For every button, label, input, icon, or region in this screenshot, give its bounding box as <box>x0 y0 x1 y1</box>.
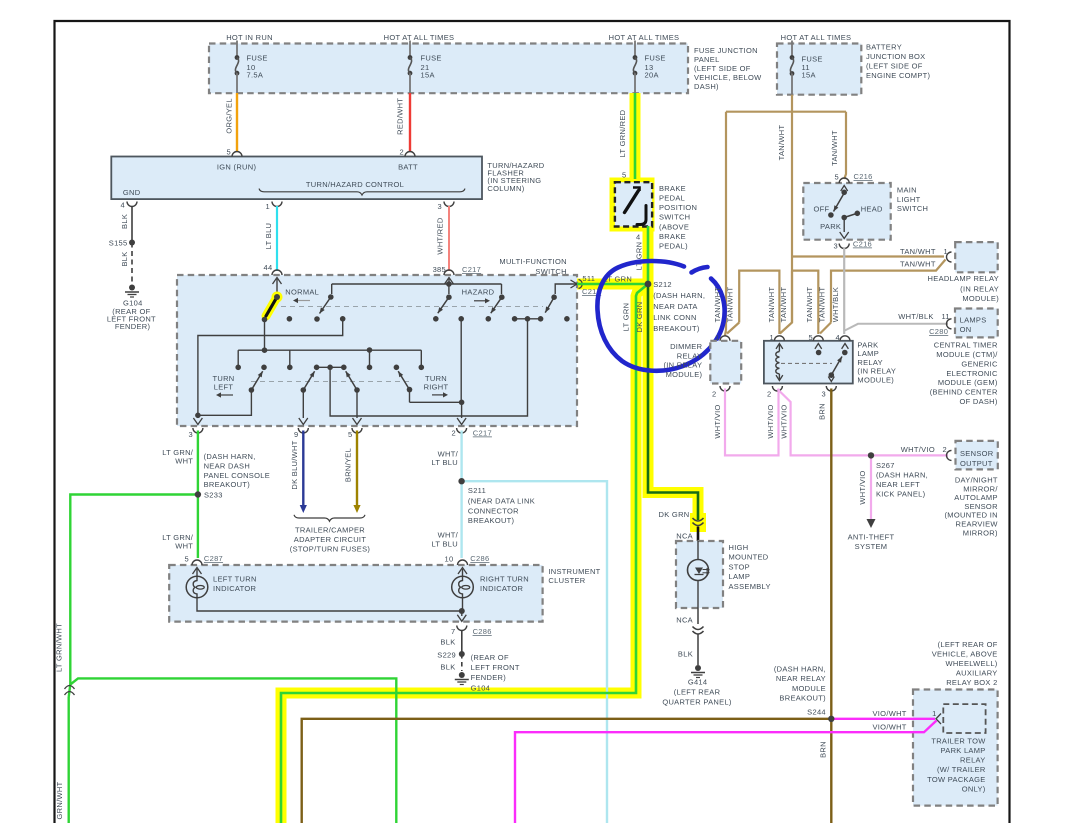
svg-text:S244: S244 <box>807 708 826 717</box>
svg-text:(IN RELAY: (IN RELAY <box>663 361 702 370</box>
svg-text:SWITCH: SWITCH <box>897 204 928 213</box>
node pin385 junction <box>446 281 452 287</box>
svg-text:FENDER): FENDER) <box>115 322 151 331</box>
bus wire y350 <box>238 349 421 351</box>
wire WHT/BLK MLS to park relay <box>843 248 845 334</box>
pin 5 park relay <box>813 336 823 341</box>
svg-text:TAN/WHT: TAN/WHT <box>900 260 936 269</box>
svg-text:G414: G414 <box>688 678 708 687</box>
svg-text:FUSE: FUSE <box>421 54 442 63</box>
svg-text:5: 5 <box>835 173 839 182</box>
highlight LT GRN/RED fuse13 wire <box>630 93 641 179</box>
svg-text:PARK LAMP: PARK LAMP <box>941 746 986 755</box>
fuse F13 20A <box>634 41 636 58</box>
svg-text:C286: C286 <box>470 554 489 563</box>
svg-text:3: 3 <box>822 390 826 399</box>
svg-text:44: 44 <box>264 263 273 272</box>
svg-text:MOUNTED: MOUNTED <box>729 553 769 562</box>
node S211 <box>458 478 464 484</box>
svg-text:PARK: PARK <box>857 341 878 350</box>
svg-text:MODULE (GEM): MODULE (GEM) <box>938 378 998 387</box>
svg-text:2: 2 <box>452 429 456 438</box>
svg-text:VEHICLE, ABOVE: VEHICLE, ABOVE <box>932 650 998 659</box>
brace turn/hazard control <box>259 189 465 195</box>
svg-text:(ABOVE: (ABOVE <box>659 222 689 231</box>
svg-text:TAN/WHT: TAN/WHT <box>779 287 788 323</box>
switch H3 and 511 exit <box>555 284 577 294</box>
svg-text:1: 1 <box>932 709 936 718</box>
high mounted stop lamp box <box>676 541 723 608</box>
svg-text:SWITCH: SWITCH <box>659 213 690 222</box>
svg-text:MODULE (CTM)/: MODULE (CTM)/ <box>936 350 998 359</box>
svg-text:INSTRUMENT: INSTRUMENT <box>548 567 600 576</box>
wire TAN/WHT to dimmer relay <box>725 112 727 330</box>
relay contact pin5 <box>815 344 822 349</box>
svg-text:2: 2 <box>400 148 404 157</box>
pin 5 flasher <box>232 152 242 157</box>
svg-text:AUXILIARY: AUXILIARY <box>956 669 998 678</box>
wire TAN/WHT headlamp feed B <box>831 260 946 323</box>
wire TAN/WHT to main light switch <box>844 112 846 179</box>
wire WHT/VIO to anti-theft <box>870 455 872 519</box>
wire WHT/LT BLU branch right <box>462 481 607 823</box>
svg-text:WHT/BLK: WHT/BLK <box>898 312 933 321</box>
pin 11 lamps on <box>947 319 952 329</box>
wire TAN/WHT segB <box>792 271 818 334</box>
pin 1 headlamp relay <box>947 252 952 262</box>
svg-text:10: 10 <box>445 555 454 564</box>
svg-text:C217: C217 <box>462 265 481 274</box>
svg-text:BLK: BLK <box>678 649 693 658</box>
svg-text:COLUMN): COLUMN) <box>487 184 524 193</box>
svg-text:HEAD: HEAD <box>861 205 883 214</box>
svg-text:PARK: PARK <box>820 222 841 231</box>
wire TAN/WHT from fuse 11 <box>791 95 793 323</box>
svg-text:15A: 15A <box>421 71 435 80</box>
connector NCA inline <box>693 518 704 521</box>
svg-text:RELAY: RELAY <box>677 351 703 360</box>
svg-text:RELAY BOX 2: RELAY BOX 2 <box>946 678 997 687</box>
svg-text:BREAKOUT): BREAKOUT) <box>779 694 826 703</box>
annotation blue dash <box>692 267 708 273</box>
main light switch box <box>803 183 890 240</box>
svg-text:PEDAL: PEDAL <box>659 194 685 203</box>
pin 2 park relay <box>772 386 782 391</box>
svg-text:PANEL CONSOLE: PANEL CONSOLE <box>204 471 270 480</box>
svg-text:NEAR RELAY: NEAR RELAY <box>776 674 826 683</box>
svg-text:BRN/YEL: BRN/YEL <box>344 448 353 482</box>
trailer tow relay inner box <box>943 704 985 733</box>
svg-text:KICK PANEL): KICK PANEL) <box>876 490 926 499</box>
pin 1 flasher <box>272 202 282 207</box>
svg-text:WHT/VIO: WHT/VIO <box>779 404 788 438</box>
svg-text:NCA: NCA <box>676 615 693 624</box>
highlight LT GRN branch to bottom <box>281 284 648 823</box>
pin 3 MLS <box>839 244 849 249</box>
svg-text:BRN: BRN <box>818 403 827 420</box>
MLS internal switch <box>841 186 848 192</box>
svg-text:PANEL: PANEL <box>694 55 720 64</box>
svg-text:5: 5 <box>227 148 231 157</box>
wire LT GRN from 511 <box>577 283 648 286</box>
node S267 <box>868 452 874 458</box>
svg-text:WHT/VIO: WHT/VIO <box>858 470 867 504</box>
node S244 <box>828 716 834 722</box>
svg-text:(STOP/TURN FUSES): (STOP/TURN FUSES) <box>290 545 371 554</box>
wire DK GRN branch down <box>648 284 698 520</box>
svg-text:TOW PACKAGE: TOW PACKAGE <box>927 775 985 784</box>
svg-text:S155: S155 <box>109 239 128 248</box>
wire dot342 to pin3 rail <box>198 319 343 416</box>
wire LT GRN branch down <box>281 284 648 823</box>
svg-text:C287: C287 <box>204 554 223 563</box>
battery junction box <box>777 44 861 95</box>
svg-text:7: 7 <box>451 627 455 636</box>
svg-text:S267: S267 <box>876 461 895 470</box>
svg-text:TAN/WHT: TAN/WHT <box>713 287 722 323</box>
svg-text:(IN RELAY: (IN RELAY <box>960 284 999 293</box>
node pin3 junction <box>195 413 201 419</box>
lamps on box <box>955 309 998 338</box>
pin 7 exit connector <box>457 626 467 631</box>
wire pin2 drop <box>460 319 462 403</box>
svg-text:CENTRAL TIMER: CENTRAL TIMER <box>934 341 998 350</box>
svg-text:IGN (RUN): IGN (RUN) <box>217 163 257 172</box>
svg-text:S229: S229 <box>437 651 456 660</box>
svg-text:JUNCTION BOX: JUNCTION BOX <box>866 52 925 61</box>
pin 5 cluster entry <box>192 560 202 565</box>
svg-text:C286: C286 <box>473 627 492 636</box>
svg-text:BREAKOUT): BREAKOUT) <box>468 516 515 525</box>
contact dot below normal lever <box>262 317 268 323</box>
svg-text:C216: C216 <box>853 240 872 249</box>
wire WHT/LT BLU pin2 <box>460 431 462 559</box>
svg-text:BREAKOUT): BREAKOUT) <box>653 324 700 333</box>
svg-text:LAMP: LAMP <box>729 572 751 581</box>
relay coil <box>776 344 783 349</box>
svg-text:BLK: BLK <box>120 214 129 229</box>
svg-text:HAZARD: HAZARD <box>462 287 495 296</box>
svg-text:POSITION: POSITION <box>659 203 697 212</box>
wire LT GRN/WHT to left margin <box>70 495 198 685</box>
svg-text:2: 2 <box>767 390 771 399</box>
wire TAN/WHT vertical to park pin1 <box>780 271 792 334</box>
svg-text:HOT AT ALL TIMES: HOT AT ALL TIMES <box>384 33 455 42</box>
svg-text:4: 4 <box>121 201 125 210</box>
sensor output box <box>956 441 998 470</box>
svg-text:(LEFT REAR OF: (LEFT REAR OF <box>938 640 998 649</box>
wire hazard bus y284 <box>332 283 502 285</box>
svg-text:BRAKE: BRAKE <box>659 184 686 193</box>
svg-text:(NEAR DATA LINK: (NEAR DATA LINK <box>468 497 535 506</box>
ground G104 left <box>129 285 135 291</box>
svg-text:LT GRN: LT GRN <box>634 242 643 271</box>
svg-text:ONLY): ONLY) <box>962 784 986 793</box>
svg-text:OF DASH): OF DASH) <box>959 397 997 406</box>
svg-text:TRAILER/CAMPER: TRAILER/CAMPER <box>295 526 365 535</box>
wire break symbol green <box>69 685 71 698</box>
pin 385 entry <box>444 270 454 275</box>
switch lever NORMAL highlighted <box>266 297 277 316</box>
wire LT GRN brake to S212 <box>647 226 650 284</box>
svg-text:(DASH HARN,: (DASH HARN, <box>204 452 256 461</box>
svg-text:TAN/WHT: TAN/WHT <box>725 287 734 323</box>
svg-text:TAN/WHT: TAN/WHT <box>777 125 786 161</box>
svg-text:BLK: BLK <box>440 663 455 672</box>
highlight DK GRN branch to stop lamp <box>648 284 698 519</box>
mechanical linkage dashed lower <box>251 381 410 383</box>
svg-text:LEFT TURN: LEFT TURN <box>213 575 257 584</box>
svg-text:S212: S212 <box>653 280 672 289</box>
node S212 <box>645 281 652 288</box>
svg-text:BATT: BATT <box>398 163 418 172</box>
svg-text:4: 4 <box>636 233 640 242</box>
headlamp relay box <box>955 242 998 272</box>
svg-text:C280: C280 <box>929 327 948 336</box>
highlight brake switch box <box>610 178 655 232</box>
svg-text:S233: S233 <box>204 491 223 500</box>
svg-text:2: 2 <box>943 445 947 454</box>
svg-text:HEADLAMP RELAY: HEADLAMP RELAY <box>928 274 999 283</box>
brake pedal position switch box <box>615 182 652 226</box>
brake switch lower contact <box>637 206 646 225</box>
pin 5 MLS <box>839 178 849 183</box>
svg-text:TRAILER TOW: TRAILER TOW <box>931 736 986 745</box>
wire bottom rail y416 <box>330 319 527 416</box>
brake switch lever <box>633 188 640 192</box>
svg-text:OFF: OFF <box>813 205 829 214</box>
wire LT GRN/RED core <box>634 93 637 179</box>
svg-text:NEAR DASH: NEAR DASH <box>204 461 250 470</box>
svg-text:REARVIEW: REARVIEW <box>956 520 999 529</box>
pin 2 sensor output <box>947 450 952 460</box>
svg-text:LAMP: LAMP <box>857 349 879 358</box>
svg-text:LT BLU: LT BLU <box>431 458 458 467</box>
turn/hazard flasher box <box>111 157 482 200</box>
mechanical linkage dashed upper <box>281 306 543 308</box>
svg-text:3: 3 <box>189 430 193 439</box>
park lamp relay box <box>764 341 853 384</box>
wire WHT/VIO dimmer to park pin2 <box>725 389 779 456</box>
svg-text:1: 1 <box>266 202 270 211</box>
svg-text:(DASH HARN,: (DASH HARN, <box>653 291 705 300</box>
svg-text:S211: S211 <box>468 486 486 495</box>
svg-text:NEAR LEFT: NEAR LEFT <box>876 480 920 489</box>
exit arrow pin 3 <box>197 415 199 418</box>
svg-text:VIO/WHT: VIO/WHT <box>873 709 907 718</box>
wire LT BLU <box>276 206 278 271</box>
svg-text:BATTERY: BATTERY <box>866 43 902 52</box>
switch L2 <box>301 387 307 393</box>
svg-text:MODULE): MODULE) <box>962 294 999 303</box>
svg-text:SENSOR: SENSOR <box>960 449 994 458</box>
wire BLK dashed to G104 right <box>461 654 463 671</box>
svg-text:QUARTER PANEL): QUARTER PANEL) <box>662 698 732 707</box>
pin 3 exit connector <box>193 428 203 433</box>
svg-text:NORMAL: NORMAL <box>285 287 319 296</box>
pin 44 entry <box>272 270 282 275</box>
wire BLK flasher gnd <box>131 206 133 243</box>
pin 4 park relay <box>840 336 850 341</box>
svg-text:(BEHIND CENTER: (BEHIND CENTER <box>930 388 998 397</box>
svg-text:TAN/WHT: TAN/WHT <box>767 287 776 323</box>
svg-text:4: 4 <box>836 333 840 342</box>
svg-text:TAN/WHT: TAN/WHT <box>818 287 827 323</box>
pin 1 dimmer <box>720 336 730 341</box>
svg-text:7.5A: 7.5A <box>247 71 264 80</box>
svg-text:WHT/VIO: WHT/VIO <box>766 404 775 438</box>
svg-text:DK GRN: DK GRN <box>659 510 690 519</box>
wire BLK cluster gnd <box>461 630 463 654</box>
ground G104 right <box>459 672 465 678</box>
svg-text:(LEFT REAR: (LEFT REAR <box>674 688 721 697</box>
pin 10 cluster entry <box>458 560 468 565</box>
svg-text:ADAPTER CIRCUIT: ADAPTER CIRCUIT <box>294 535 367 544</box>
node S229 <box>459 651 465 657</box>
svg-text:GRN/WHT: GRN/WHT <box>55 781 64 819</box>
svg-text:(IN RELAY: (IN RELAY <box>857 367 896 376</box>
svg-text:(DASH HARN,: (DASH HARN, <box>774 665 826 674</box>
wire ORG/YEL <box>236 93 238 152</box>
svg-text:RED/WHT: RED/WHT <box>395 98 404 135</box>
exit arrow 511 <box>571 280 578 288</box>
svg-text:GENERIC: GENERIC <box>961 359 998 368</box>
svg-text:TURN/HAZARD CONTROL: TURN/HAZARD CONTROL <box>306 180 404 189</box>
svg-text:HOT AT ALL TIMES: HOT AT ALL TIMES <box>781 33 852 42</box>
svg-text:WHT/VIO: WHT/VIO <box>901 445 935 454</box>
pin 1 trailer relay connector <box>936 714 941 725</box>
contact dots upper row <box>287 316 293 322</box>
svg-text:TAN/WHT: TAN/WHT <box>900 247 936 256</box>
pin 2 dimmer <box>720 386 730 391</box>
svg-text:LT GRN: LT GRN <box>622 303 631 332</box>
svg-text:MAIN: MAIN <box>897 186 917 195</box>
wire NCA below lamp <box>697 608 699 624</box>
svg-text:LEFT FRONT: LEFT FRONT <box>471 663 520 672</box>
wire LT GRN/WHT lower horizontal <box>70 678 396 823</box>
svg-text:BREAKOUT): BREAKOUT) <box>204 480 251 489</box>
pin 9 exit connector <box>298 428 308 433</box>
svg-text:FUSE: FUSE <box>247 54 268 63</box>
svg-text:C216: C216 <box>854 172 873 181</box>
svg-text:(DASH HARN,: (DASH HARN, <box>876 471 928 480</box>
svg-text:WHT: WHT <box>175 542 193 551</box>
svg-text:(LEFT SIDE OF: (LEFT SIDE OF <box>866 62 923 71</box>
svg-text:(LEFT SIDE OF: (LEFT SIDE OF <box>694 64 751 73</box>
svg-text:ENGINE COMPT): ENGINE COMPT) <box>866 71 931 80</box>
svg-text:HIGH: HIGH <box>729 543 749 552</box>
svg-text:ON: ON <box>960 325 972 334</box>
svg-text:1: 1 <box>770 333 774 342</box>
wire VIO/WHT from S244 <box>831 718 935 720</box>
svg-text:DAY/NIGHT: DAY/NIGHT <box>955 476 998 485</box>
svg-text:1: 1 <box>944 247 948 256</box>
svg-text:5: 5 <box>348 430 352 439</box>
wire BLK to G414 <box>697 634 699 665</box>
wire RED/WHT <box>409 93 411 152</box>
wire LT GRN/WHT pin3 <box>197 431 199 559</box>
svg-text:MODULE: MODULE <box>792 684 826 693</box>
svg-text:TAN/WHT: TAN/WHT <box>830 130 839 166</box>
svg-text:511: 511 <box>582 274 595 283</box>
svg-text:20A: 20A <box>645 71 659 80</box>
svg-text:DASH): DASH) <box>694 82 719 91</box>
svg-text:WHT/RED: WHT/RED <box>436 217 445 254</box>
highlight NCA connector blob <box>690 513 706 532</box>
wire TAN/WHT headlamp feed A <box>792 255 944 257</box>
svg-text:INDICATOR: INDICATOR <box>213 584 257 593</box>
pin 3 park relay <box>826 386 836 391</box>
svg-text:TAN/WHT: TAN/WHT <box>805 287 814 323</box>
instrument cluster box <box>169 565 542 622</box>
svg-text:RIGHT TURN: RIGHT TURN <box>480 575 529 584</box>
svg-text:FENDER): FENDER) <box>471 673 507 682</box>
svg-text:RELAY: RELAY <box>857 358 883 367</box>
svg-text:2: 2 <box>712 390 716 399</box>
svg-text:NCA: NCA <box>676 532 693 541</box>
svg-text:(MOUNTED IN: (MOUNTED IN <box>945 511 998 520</box>
svg-text:DK BLU/WHT: DK BLU/WHT <box>290 440 299 489</box>
svg-text:HOT IN RUN: HOT IN RUN <box>226 33 273 42</box>
annotation blue circle around S212 <box>597 261 724 371</box>
svg-text:LINK CONN: LINK CONN <box>653 313 697 322</box>
left turn indicator bulb <box>186 576 208 598</box>
svg-text:RIGHT: RIGHT <box>424 383 449 392</box>
svg-text:NEAR DATA: NEAR DATA <box>653 302 698 311</box>
svg-text:HOT AT ALL TIMES: HOT AT ALL TIMES <box>609 33 680 42</box>
svg-text:INDICATOR: INDICATOR <box>480 584 524 593</box>
pin 3 flasher <box>444 202 454 207</box>
svg-text:DIMMER: DIMMER <box>670 342 702 351</box>
svg-text:VIO/WHT: VIO/WHT <box>873 722 907 731</box>
svg-text:BRN: BRN <box>818 741 827 758</box>
wire TAN/WHT horizontal split <box>726 111 846 113</box>
wire WHT/BLK to lamps-on <box>845 324 948 331</box>
switch L3 <box>354 387 360 393</box>
svg-text:MIRROR/: MIRROR/ <box>963 484 998 493</box>
svg-text:WHEELWELL): WHEELWELL) <box>946 659 998 668</box>
svg-text:AUTOLAMP: AUTOLAMP <box>954 493 998 502</box>
trailer tow relay outer box <box>913 690 998 806</box>
svg-text:ELECTRONIC: ELECTRONIC <box>946 369 998 378</box>
wire WHT/VIO park pin2 to S267 <box>777 389 948 455</box>
svg-text:PEDAL): PEDAL) <box>659 241 688 250</box>
svg-text:CLUSTER: CLUSTER <box>548 576 585 585</box>
ground G414 <box>695 665 701 671</box>
relay contact pin4 <box>842 344 849 349</box>
svg-text:5: 5 <box>185 555 189 564</box>
svg-text:ORG/YEL: ORG/YEL <box>224 98 233 133</box>
svg-text:ANTI-THEFT: ANTI-THEFT <box>848 533 895 542</box>
fuse F11 15A <box>791 41 793 58</box>
switch H1 <box>448 284 450 294</box>
fuse F21 15A <box>409 41 411 58</box>
svg-text:LT BLU: LT BLU <box>264 223 273 250</box>
node S233 <box>195 491 201 497</box>
switch L1 turn-left <box>249 387 255 393</box>
svg-text:MODULE): MODULE) <box>857 375 894 384</box>
svg-text:FUSE JUNCTION: FUSE JUNCTION <box>694 46 758 55</box>
svg-text:WHT: WHT <box>175 457 193 466</box>
svg-text:C217: C217 <box>473 429 492 438</box>
svg-text:3: 3 <box>438 202 442 211</box>
svg-text:LEFT: LEFT <box>214 383 234 392</box>
svg-text:MULTI-FUNCTION: MULTI-FUNCTION <box>499 257 566 266</box>
svg-text:5: 5 <box>809 333 813 342</box>
svg-text:BLK: BLK <box>440 638 455 647</box>
right turn indicator bulb <box>452 576 474 598</box>
pin 4 flasher <box>127 202 137 207</box>
